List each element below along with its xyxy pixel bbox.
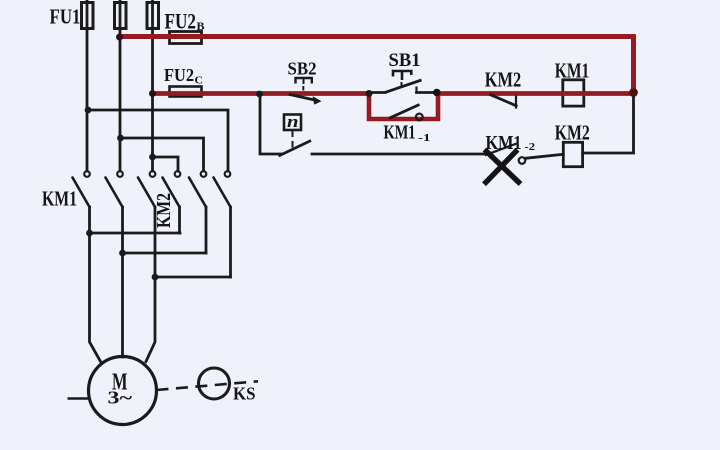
wire red control row left [151, 91, 369, 96]
junction dot loop left [366, 90, 373, 97]
junction dot node U [86, 230, 93, 237]
relay contact n box [284, 115, 301, 131]
contact KM2 pole 3 terminal [225, 171, 231, 177]
pushbutton SB2 blade arrowhead [313, 96, 322, 104]
fuse phase C [147, 3, 159, 29]
pushbutton SB1 cap [393, 71, 411, 80]
contact KM1-1 blade [389, 105, 420, 119]
svg-text:KM1: KM1 [384, 122, 416, 144]
wire phase A to KM2 contact 6 top [87, 110, 228, 171]
contact KM2 pole 2 terminal [201, 171, 207, 177]
svg-text:SB2: SB2 [288, 59, 317, 79]
contact KM2 pole 1 terminal [175, 171, 181, 177]
wire red right drop [631, 35, 636, 93]
fuse phase B [115, 3, 127, 29]
shaft dashed link to KS [157, 381, 259, 390]
wire phase C vertical [151, 0, 154, 171]
coil KM2 [563, 142, 582, 166]
wire KM1-2 to KM2 coil [525, 154, 563, 158]
svg-text:3~: 3~ [108, 388, 133, 408]
contact KM1-2 blade [485, 143, 518, 155]
contact KM2 pole 2 blade [189, 178, 206, 208]
motor M circle [89, 357, 157, 425]
wire node U join [90, 232, 181, 235]
wire SB1 top path right [417, 91, 437, 94]
wire branch to row2 [260, 94, 281, 154]
svg-text:KS: KS [233, 384, 256, 404]
wire KM1 contact 3 bottom [154, 207, 157, 277]
fuse FU2C [170, 87, 202, 97]
fuse FU1 [82, 3, 94, 29]
wire motor lead U [90, 233, 101, 362]
contact KM2 pole 3 blade [214, 178, 231, 208]
contact KM2 NC stop bar [515, 96, 517, 109]
svg-text:FU2: FU2 [165, 9, 197, 34]
junction dot phase B row [117, 135, 124, 142]
wire KM1 contact 2 bottom [121, 207, 124, 253]
contact KM1 pole 2 blade [106, 178, 123, 208]
junction dot row2 branch [256, 91, 263, 98]
wire motor lead W [146, 277, 155, 362]
motor left shaft dash [68, 397, 89, 400]
contact KM1 pole 1 blade [73, 178, 90, 208]
pushbutton SB1 stem dash [401, 82, 403, 87]
pushbutton SB2 cap [296, 78, 312, 84]
svg-text:B: B [197, 19, 205, 33]
relay contact n blade [279, 141, 312, 157]
svg-text:-2: -2 [525, 141, 536, 153]
junction dot loop right [433, 89, 441, 97]
contact KM1-2 terminal ring [519, 157, 526, 164]
junction dot phase A row [85, 107, 92, 114]
svg-text:KM1: KM1 [486, 132, 522, 154]
svg-text:FU2: FU2 [164, 65, 194, 85]
pushbutton SB1 stop bar [415, 87, 417, 94]
fault cross stroke 1 [485, 150, 521, 185]
junction dot right rail corner [629, 88, 638, 97]
contact KM1-1 terminal ring [416, 114, 423, 121]
contact KM1 pole 1 terminal [84, 171, 90, 177]
svg-text:KM2: KM2 [485, 68, 522, 92]
coil KM1 [563, 80, 584, 106]
wire red control row right [437, 91, 634, 96]
pushbutton SB1 blade [385, 80, 422, 93]
wire KM2 contact 5 bottom [205, 207, 208, 253]
fuse FU2B [170, 32, 202, 44]
contact KM1 pole 2 terminal [117, 171, 123, 177]
junction dot phase C row [149, 154, 156, 161]
wire node W join [155, 276, 231, 279]
wire phase B vertical [119, 0, 122, 171]
svg-text:C: C [195, 75, 204, 87]
wire SB1 top path left [369, 91, 385, 94]
speed relay KS circle [199, 368, 230, 399]
wire KM2 coil to right rail [583, 93, 634, 154]
contact KM1 pole 3 terminal [150, 171, 156, 177]
wire KM1 contact 1 bottom [88, 207, 91, 233]
wire red loop KM1-1 [369, 93, 438, 120]
contact KM2 NC blade [490, 94, 518, 106]
wire motor lead V [121, 253, 124, 357]
fault cross stroke 2 [484, 150, 518, 184]
svg-text:SB1: SB1 [389, 50, 421, 71]
svg-text:FU1: FU1 [50, 5, 81, 29]
wire phase A vertical [86, 0, 89, 171]
junction dot phase C red tap [149, 90, 156, 97]
wire phase C to KM2 contact 4 top [153, 157, 179, 171]
contact KM2 pole 1 blade [163, 178, 180, 208]
wire phase B to KM2 contact 5 top [120, 138, 204, 171]
wire row2 middle segment [312, 153, 485, 156]
svg-text:KM1: KM1 [555, 59, 590, 83]
svg-text:-1: -1 [418, 132, 431, 144]
wire KM2 contact 6 bottom [229, 207, 232, 277]
wire KM2 contact 4 bottom [178, 207, 181, 233]
contact KM1 pole 3 blade [138, 178, 155, 208]
pushbutton SB2 blade [289, 94, 318, 101]
junction dot phase B red tap [116, 34, 123, 41]
junction dot node W [152, 274, 159, 281]
wire red phase B feed top [118, 34, 636, 39]
junction dot node V [119, 250, 126, 257]
svg-text:KM2: KM2 [555, 121, 590, 145]
relay contact n stem dashed [292, 131, 294, 148]
wire node V join [123, 252, 207, 255]
svg-text:n: n [287, 112, 299, 131]
svg-text:KM1: KM1 [42, 187, 77, 211]
pushbutton SB2 stem dashed [302, 79, 304, 91]
svg-text:KM2: KM2 [153, 193, 175, 228]
